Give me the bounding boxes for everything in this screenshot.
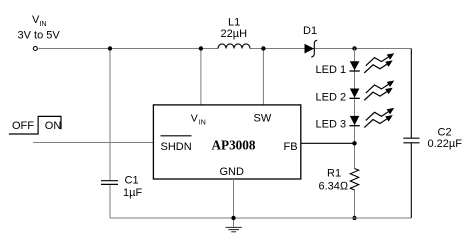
svg-text:IN: IN [40,21,47,28]
op-amp U1 AP3008 box [153,105,300,179]
wire R1 bottom lead [354,190,356,218]
node junction VIN pin [199,46,203,50]
wire VIN pin vertical [200,49,202,105]
wire bottom rail [110,217,411,219]
svg-text:D1: D1 [303,25,317,37]
svg-text:V: V [191,113,198,125]
node junction R1 bottom [352,216,356,220]
node VIN input terminal [33,47,37,51]
svg-text:IN: IN [199,120,206,127]
node junction SW pin [261,46,265,50]
svg-text:LED 1: LED 1 [316,64,347,76]
capacitor C2 [410,49,412,139]
svg-text:ON: ON [45,120,62,132]
svg-text:22µH: 22µH [221,28,248,40]
node junction GND/bottom rail [231,216,235,220]
node junction VIN/C1 [108,46,112,50]
svg-text:GND: GND [220,166,245,178]
LED D-LED2 [349,81,394,101]
svg-text:OFF: OFF [12,120,34,132]
svg-text:AP3008: AP3008 [212,138,256,153]
wire FB connection [301,142,355,144]
OFF/ON control waveform [9,116,61,134]
capacitor C1 [101,180,118,182]
svg-text:C1: C1 [125,175,139,187]
wire GND pin vertical [233,179,235,227]
wire C1 branch vertical [109,49,111,181]
svg-text:L1: L1 [228,17,240,29]
svg-text:R1: R1 [327,168,341,180]
wire top rail right [250,48,411,50]
node junction LED rail top [352,46,356,50]
node junction FB/LED rail [352,141,356,145]
svg-text:0.22µF: 0.22µF [428,138,463,150]
wire top rail left [39,48,219,50]
resistor R1 [350,169,358,191]
svg-text:3V to 5V: 3V to 5V [18,30,61,42]
svg-text:SW: SW [254,113,272,125]
svg-text:FB: FB [284,141,298,153]
svg-text:6.34Ω: 6.34Ω [319,181,349,193]
diode D1 [305,40,318,57]
svg-text:1µF: 1µF [123,187,142,199]
wire LED rail [354,49,356,169]
svg-text:LED 3: LED 3 [316,119,347,131]
wire SW pin vertical [262,49,264,105]
svg-text:C2: C2 [438,127,452,139]
ground [226,227,242,231]
svg-text:LED 2: LED 2 [316,91,347,103]
wire SHDN [33,142,153,144]
inductor L1 [218,44,250,49]
LED D-LED1 [349,53,394,73]
LED D-LED3 [349,108,394,128]
svg-text:SHDN: SHDN [161,141,192,153]
